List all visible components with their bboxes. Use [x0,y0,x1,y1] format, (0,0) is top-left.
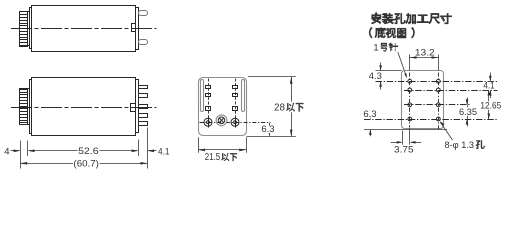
bottom edge extension [364,129,447,131]
dimension 6.3 line [269,123,271,137]
side view fins block [20,89,28,125]
top view centerline [11,28,157,30]
front view right slot [242,80,245,112]
side view relay body [32,78,136,136]
title 安装孔加工尺寸 [372,12,381,24]
row 1 centerline [376,81,498,83]
front view circles row centerline [200,122,271,124]
top edge extension [376,70,402,72]
side view pin 3 [139,114,148,118]
hole column centerline right [438,73,440,131]
front view right mounting boss [231,118,239,126]
extension line pin tip [147,128,149,169]
svg-text:3.75: 3.75 [394,143,414,154]
left edge extension below [402,131,404,145]
svg-text:1: 1 [373,42,378,53]
left column extension below [409,128,411,145]
svg-text:8-φ 1.3: 8-φ 1.3 [445,139,475,150]
front view left mounting boss [204,118,212,126]
front view pin at x235 y87 [233,86,238,89]
dimension 4 arrow [11,150,20,152]
dimension 6.3 left [370,112,372,119]
front view right pin column line [235,79,237,119]
front view center stud inner with X [218,117,225,124]
front view body [199,78,247,136]
front view pin at x235 y95 [233,94,238,97]
svg-text:52.6: 52.6 [78,146,99,157]
front view pin at x208 y108 [206,107,211,111]
dimension 28以下 line [291,77,293,102]
top view pin lower [139,40,148,45]
front view center stud outer [216,115,227,126]
dimension 4.1 right [490,73,492,81]
svg-text:6.3: 6.3 [363,108,376,119]
side view pin 4 [139,122,148,126]
top view pin upper [139,11,148,16]
column extension lines for 13.2 [409,55,411,71]
leader 1号针 [398,52,407,77]
dimension (60.7) line [20,163,147,165]
row 2 centerline [404,90,498,92]
side view flange [136,80,139,133]
dimension 13.2 line [410,57,439,59]
hole column centerline left [409,73,411,128]
front view left pin column line [208,79,210,119]
svg-text:4.1: 4.1 [158,147,170,158]
front view pin at x208 y95 [206,94,211,97]
svg-text:13.2: 13.2 [415,47,435,58]
top view collar step 1 [30,8,32,49]
svg-text:4.3: 4.3 [369,70,382,81]
extension line front bottom [247,136,296,138]
dimension 4.3 [380,63,382,71]
label 8-phi1.3 holes [440,122,452,140]
side view center pin [139,105,148,109]
svg-text:21.5: 21.5 [205,152,221,163]
row 3 centerline [404,104,470,106]
subtitle （底视图） [369,27,372,38]
dimension 52.6 line [29,150,138,152]
svg-text:6.35: 6.35 [459,106,477,117]
front view left slot [201,80,204,112]
svg-text:12.65: 12.65 [480,100,501,111]
row 4 centerline [364,119,498,121]
extension line front left bottom [198,137,200,153]
mounting footprint outline [402,71,444,129]
svg-text:28: 28 [274,103,285,114]
dimension 21.5以下 line [198,149,246,151]
side view centerline [11,107,157,109]
top view relay body [32,6,136,52]
top view fins block [20,12,28,47]
side view collar step 2 [28,89,30,125]
svg-text:4: 4 [4,147,10,158]
top view collar step 2 [28,12,30,46]
svg-text:6.3: 6.3 [261,124,274,135]
dimension 6.35 line [467,105,469,119]
dimension 12.65 line [488,90,490,119]
extension line flange right [138,140,140,157]
front view pin at x235 y108 [233,107,238,111]
top view latch tab [132,24,136,32]
front view pin at x208 y87 [206,86,211,89]
side view latch tab [131,104,136,112]
svg-text:4.1: 4.1 [483,79,494,90]
top view flange [136,8,139,50]
side view pin 1 [139,86,148,89]
dimension 28以下 label [274,103,305,112]
extension line front top [248,76,296,78]
extension line collar [27,141,29,157]
svg-text:(60.7): (60.7) [73,158,99,169]
8 mounting holes [408,79,440,121]
extension line front right bottom [246,137,248,153]
extension line fins left [20,141,22,169]
dimension 4.1 arrow [148,150,156,152]
side view pin 2 [139,94,148,98]
side view collar step 1 [30,80,32,134]
dimension 3.75 [391,142,402,144]
